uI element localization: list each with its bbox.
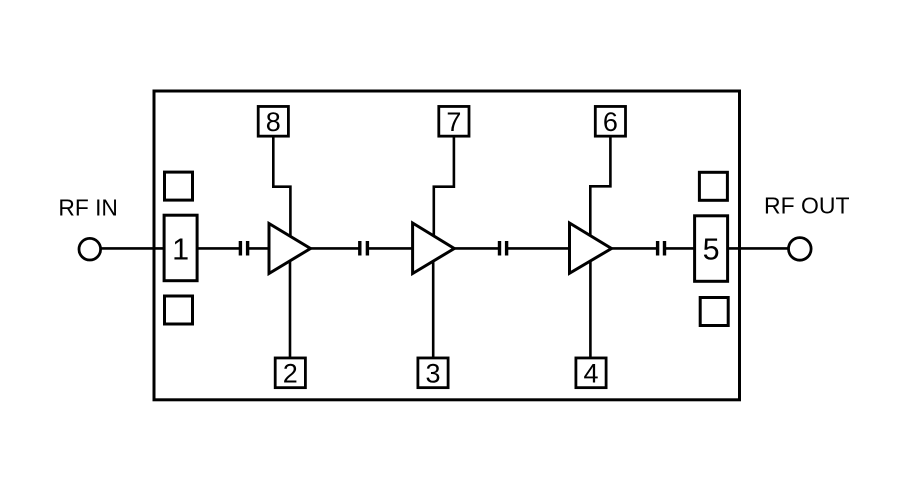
svg-text:RF OUT: RF OUT (764, 192, 850, 218)
svg-text:1: 1 (172, 233, 189, 267)
svg-text:4: 4 (583, 359, 598, 389)
svg-text:5: 5 (703, 233, 720, 267)
svg-text:3: 3 (425, 359, 440, 389)
svg-text:8: 8 (266, 107, 281, 137)
svg-text:RF IN: RF IN (58, 194, 118, 220)
svg-text:2: 2 (283, 359, 298, 389)
svg-text:6: 6 (603, 107, 618, 137)
svg-text:7: 7 (446, 107, 461, 137)
